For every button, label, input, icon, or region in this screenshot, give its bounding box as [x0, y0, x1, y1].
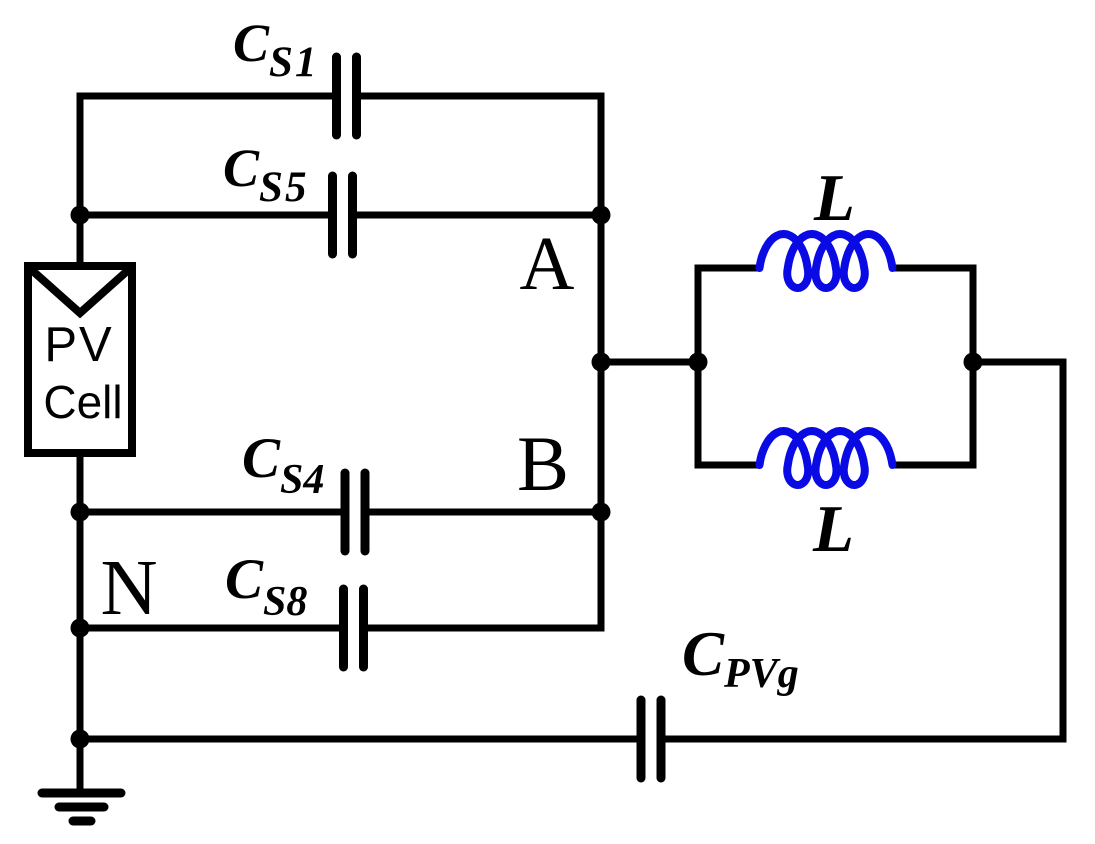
PV cell triangle	[30, 269, 130, 314]
wire: row3 CS4 left segment	[80, 509, 347, 516]
wire: bottom row left segment	[80, 736, 644, 743]
svg-text:Cell: Cell	[43, 376, 122, 428]
ground bar 3	[73, 817, 91, 826]
svg-text:B: B	[517, 420, 569, 507]
wire: inductor right vertical	[970, 265, 977, 469]
inductor L top coil	[760, 234, 893, 288]
svg-text:L: L	[813, 161, 855, 235]
wire: left bus lower (PV bottom to ground)	[77, 453, 84, 791]
wire: inductor top lead right	[890, 265, 977, 272]
wire: right main bus	[598, 93, 605, 632]
wire: left bus upper (row1 to PV top)	[77, 93, 84, 267]
wire: row3 CS4 right segment	[363, 509, 601, 516]
inductor L bottom coil	[760, 431, 893, 485]
wire: inductor bottom lead left	[695, 462, 763, 469]
wire: mid link bus to inductors	[601, 359, 698, 366]
wire: row2 CS5 left segment	[80, 212, 334, 219]
wire: top row CS1 left segment	[80, 93, 338, 100]
capacitor C_PVg plates	[637, 700, 646, 778]
node dot left bus row4	[71, 619, 90, 638]
wire: inductor top lead left	[695, 265, 763, 272]
node dot B	[592, 503, 611, 522]
wire: bottom row right segment	[658, 736, 1067, 743]
svg-text:PV: PV	[44, 318, 113, 372]
PV cell box	[28, 266, 132, 453]
wire: top row CS1 right segment	[355, 93, 601, 100]
node dot inductor right	[964, 353, 983, 372]
svg-text:N: N	[100, 545, 157, 632]
capacitor C_S4 plates	[341, 473, 350, 551]
node dot left bus row3	[71, 503, 90, 522]
ground bar 2	[59, 803, 104, 812]
wire: far right vertical	[1060, 359, 1067, 743]
node dot inductor left	[689, 353, 708, 372]
wire: inductor left vertical	[695, 265, 702, 469]
wire: right link	[973, 359, 1063, 366]
svg-text:A: A	[520, 222, 575, 306]
node dot A	[592, 206, 611, 225]
svg-text:L: L	[812, 492, 854, 566]
node dot bus mid	[592, 353, 611, 372]
wire: inductor bottom lead right	[890, 462, 977, 469]
node dot left bus row2	[71, 206, 90, 225]
ground bar 1	[42, 789, 121, 798]
capacitor C_S5 plates	[328, 176, 337, 254]
wire: row4 CS8 right segment	[362, 625, 601, 632]
wire: row4 CS8 left segment	[80, 625, 345, 632]
wire: row2 CS5 right segment	[351, 212, 601, 219]
capacitor C_S1 plates	[332, 57, 341, 135]
capacitor C_S8 plates	[339, 589, 348, 667]
node dot left bus bottom	[71, 730, 90, 749]
